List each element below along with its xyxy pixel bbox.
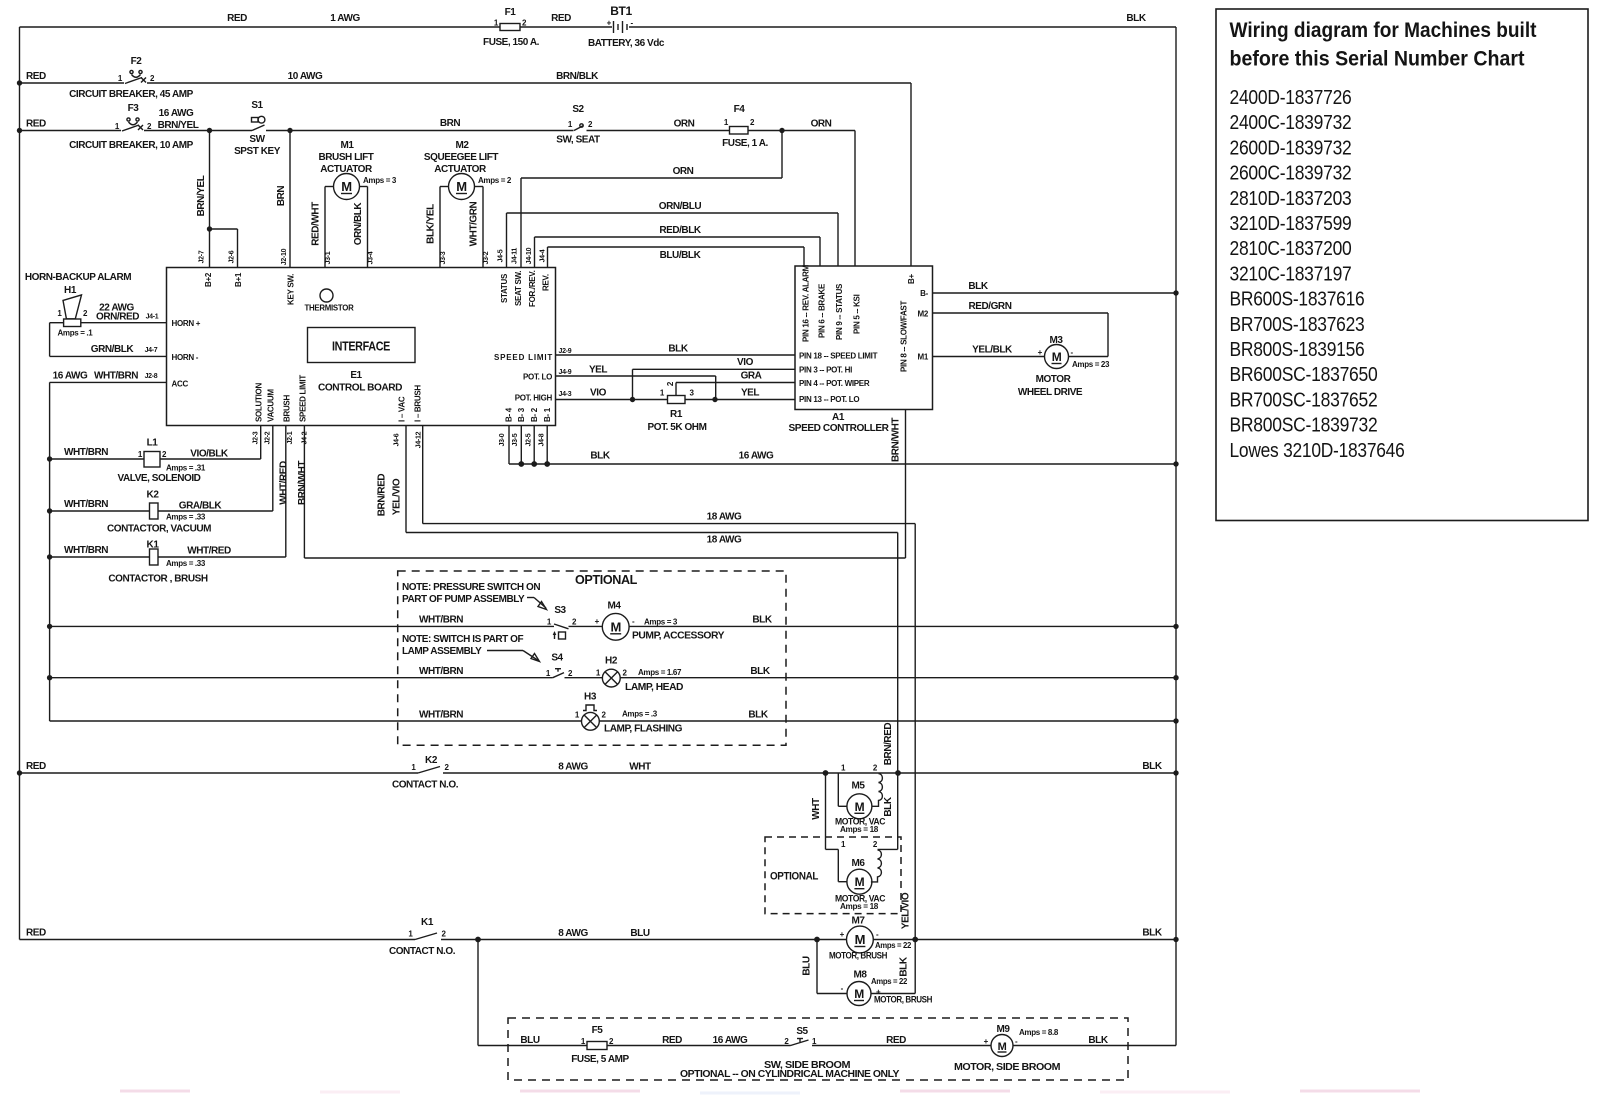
- wire: GRA wiper to PIN4: [675, 383, 677, 396]
- svg-text:Amps = 1.67: Amps = 1.67: [638, 668, 682, 677]
- svg-text:THERMISTOR: THERMISTOR: [305, 303, 354, 313]
- interface module: [308, 328, 416, 363]
- svg-text:F1: F1: [505, 7, 517, 18]
- svg-text:B+2: B+2: [204, 272, 213, 287]
- wire: WHT/BRN row to S4: [50, 677, 553, 679]
- wire: BRN/BLK drop to B+: [910, 83, 912, 266]
- svg-text:J4-3: J4-3: [559, 391, 572, 398]
- svg-text:+: +: [595, 617, 600, 626]
- node: junction left bus row2: [17, 80, 22, 85]
- svg-text:M2: M2: [917, 310, 928, 319]
- svg-text:WHEEL DRIVE: WHEEL DRIVE: [1018, 387, 1083, 398]
- svg-text:GRA: GRA: [741, 371, 762, 382]
- svg-text:PIN 16 -- REV. ALARM: PIN 16 -- REV. ALARM: [802, 264, 811, 342]
- svg-text:PIN 9 -- STATUS: PIN 9 -- STATUS: [835, 283, 844, 340]
- svg-text:BLU: BLU: [802, 956, 813, 975]
- svg-text:BR700SC-1837652: BR700SC-1837652: [1230, 388, 1378, 411]
- svg-text:WHT/RED: WHT/RED: [187, 546, 231, 557]
- svg-text:GRN/BLK: GRN/BLK: [91, 344, 135, 355]
- svg-text:J4-11: J4-11: [512, 248, 519, 264]
- svg-text:J4-1: J4-1: [146, 314, 159, 321]
- wire: M1 left leg RED/WHT to J3-1: [324, 187, 326, 268]
- svg-text:WHT/BRN: WHT/BRN: [64, 499, 108, 510]
- svg-text:RED: RED: [26, 119, 46, 130]
- svg-text:BT1: BT1: [610, 4, 632, 18]
- svg-text:L1: L1: [147, 438, 159, 449]
- svg-text:PIN 4 -- POT. WIPER: PIN 4 -- POT. WIPER: [799, 379, 870, 388]
- SECTION:BRUSH: [20, 916, 1179, 1006]
- node: junction after F4: [779, 128, 784, 133]
- svg-text:SPEED LIMIT: SPEED LIMIT: [299, 375, 308, 422]
- wire: K2 row RED / 8 AWG WHT / BLK: [20, 772, 419, 774]
- svg-text:S1: S1: [251, 100, 263, 111]
- svg-text:I – BRUSH: I – BRUSH: [414, 385, 423, 422]
- svg-text:YEL/VIO: YEL/VIO: [901, 892, 912, 929]
- svg-text:J2-10: J2-10: [281, 248, 288, 265]
- svg-text:B+1: B+1: [234, 272, 243, 287]
- svg-text:ORN/BLK: ORN/BLK: [353, 202, 364, 246]
- wire: B- BLK to right bus: [933, 292, 1177, 294]
- svg-text:Amps = .33: Amps = .33: [166, 559, 206, 568]
- svg-text:WHT: WHT: [811, 798, 822, 820]
- svg-text:2600C-1839732: 2600C-1839732: [1230, 162, 1352, 185]
- svg-text:RED/WHT: RED/WHT: [311, 202, 322, 246]
- svg-text:before this Serial Number Char: before this Serial Number Chart: [1230, 48, 1525, 71]
- control board E1: [167, 268, 556, 426]
- wire: K1 row RED / 8 AWG BLU / BLK: [20, 939, 416, 941]
- svg-text:Lowes 3210D-1837646: Lowes 3210D-1837646: [1230, 439, 1405, 462]
- svg-text:BATTERY, 36 Vdc: BATTERY, 36 Vdc: [588, 38, 665, 49]
- svg-text:PIN 13 -- POT. LO: PIN 13 -- POT. LO: [799, 395, 859, 404]
- wire: RED/BLK brake row: [535, 236, 821, 238]
- svg-text:ACC: ACC: [172, 380, 189, 389]
- svg-text:J4-9: J4-9: [559, 369, 572, 376]
- svg-text:LAMP, HEAD: LAMP, HEAD: [625, 682, 683, 693]
- svg-text:Amps = 18: Amps = 18: [840, 902, 879, 911]
- wire: GRA/BLK up to J2-2 VACUUM: [272, 426, 274, 511]
- svg-text:CONTACT N.O.: CONTACT N.O.: [389, 946, 456, 957]
- wire: YEL/VIO 18 AWG from J4-12: [422, 426, 424, 524]
- svg-text:S2: S2: [572, 104, 584, 115]
- svg-text:MOTOR: MOTOR: [1036, 374, 1072, 385]
- svg-text:M: M: [998, 1041, 1007, 1053]
- svg-text:H1: H1: [64, 285, 77, 296]
- svg-text:BLK: BLK: [1142, 761, 1162, 772]
- svg-text:S5: S5: [796, 1026, 808, 1037]
- svg-text:MOTOR, SIDE BROOM: MOTOR, SIDE BROOM: [954, 1062, 1060, 1073]
- svg-text:E1: E1: [350, 370, 362, 381]
- svg-text:WHT/BRN: WHT/BRN: [94, 371, 138, 382]
- wire: H1 pin1 down to GRN/BLK HORN- row: [50, 322, 64, 324]
- svg-text:BLK: BLK: [668, 344, 688, 355]
- node: F5 branch: [475, 937, 481, 943]
- SECTION:LEFT: [25, 272, 308, 721]
- svg-text:VIO/BLK: VIO/BLK: [190, 449, 229, 460]
- svg-text:PIN 5 -- KSI: PIN 5 -- KSI: [853, 294, 862, 334]
- svg-text:M: M: [341, 179, 351, 194]
- svg-text:WHT/BRN: WHT/BRN: [419, 615, 463, 626]
- svg-text:SW: SW: [249, 134, 265, 145]
- SECTION:TOP: [17, 4, 1176, 1046]
- svg-text:SPEED CONTROLLER: SPEED CONTROLLER: [789, 423, 890, 434]
- svg-text:BRUSH LIFT: BRUSH LIFT: [319, 152, 374, 163]
- svg-text:J4-2: J4-2: [302, 431, 309, 444]
- wire: VIO branch up to PIN3 POT HI: [632, 369, 634, 399]
- wire: VIO/BLK up to J2-3 SOLUTION: [260, 426, 262, 459]
- SECTION:CHART: [1216, 9, 1588, 521]
- serial number chart box: [1216, 9, 1588, 521]
- svg-text:2810D-1837203: 2810D-1837203: [1230, 187, 1352, 210]
- svg-text:J2-8: J2-8: [145, 373, 158, 380]
- svg-text:16 AWG: 16 AWG: [159, 108, 194, 119]
- svg-text:I – VAC: I – VAC: [398, 396, 407, 422]
- svg-text:2400C-1839732: 2400C-1839732: [1230, 111, 1352, 134]
- wire: drop from K1 row to F5: [477, 940, 479, 1046]
- svg-text:FUSE, 5 AMP: FUSE, 5 AMP: [571, 1054, 629, 1065]
- svg-text:BLK: BLK: [968, 281, 988, 292]
- svg-text:BRN/RED: BRN/RED: [883, 723, 894, 766]
- svg-text:+: +: [607, 19, 612, 28]
- svg-text:PART OF PUMP ASSEMBLY: PART OF PUMP ASSEMBLY: [402, 594, 525, 605]
- svg-text:CONTACT N.O.: CONTACT N.O.: [392, 780, 459, 791]
- svg-text:BRN/RED: BRN/RED: [377, 474, 388, 517]
- svg-text:J2-6: J2-6: [229, 250, 236, 263]
- svg-text:M: M: [1052, 350, 1062, 364]
- svg-text:Wiring diagram for Machines bu: Wiring diagram for Machines built: [1230, 19, 1537, 42]
- svg-text:BRN/WHT: BRN/WHT: [297, 461, 308, 505]
- svg-text:RED: RED: [26, 928, 46, 939]
- svg-text:Amps = 8.8: Amps = 8.8: [1019, 1028, 1059, 1037]
- svg-text:ORN: ORN: [674, 119, 695, 130]
- svg-text:NOTE: PRESSURE SWITCH ON: NOTE: PRESSURE SWITCH ON: [402, 582, 540, 593]
- svg-text:S3: S3: [554, 605, 566, 616]
- svg-text:BLK: BLK: [899, 956, 910, 976]
- node: M5 branch: [823, 770, 829, 776]
- svg-text:MOTOR, BRUSH: MOTOR, BRUSH: [874, 995, 932, 1005]
- svg-text:M8: M8: [854, 970, 868, 981]
- svg-text:J2-9: J2-9: [559, 348, 572, 355]
- svg-text:SPST KEY: SPST KEY: [234, 146, 281, 157]
- svg-text:Amps = 22: Amps = 22: [871, 977, 908, 986]
- svg-text:MOTOR, BRUSH: MOTOR, BRUSH: [829, 951, 887, 961]
- svg-text:2400D-1837726: 2400D-1837726: [1230, 86, 1352, 109]
- svg-text:+: +: [840, 930, 845, 939]
- svg-text:J4-4: J4-4: [540, 249, 547, 262]
- svg-text:M: M: [855, 800, 865, 814]
- svg-text:J2-2: J2-2: [265, 431, 272, 444]
- wire: BRN/RED 18 AWG from J4-6: [405, 426, 407, 533]
- svg-text:ORN/BLU: ORN/BLU: [659, 201, 702, 212]
- svg-text:VACUUM: VACUUM: [267, 389, 276, 422]
- optional side broom dashed box: [508, 1018, 1128, 1080]
- svg-text:RED: RED: [551, 13, 571, 24]
- svg-text:CIRCUIT BREAKER, 10 AMP: CIRCUIT BREAKER, 10 AMP: [69, 140, 194, 151]
- svg-text:J3-0: J3-0: [499, 433, 506, 446]
- svg-text:ORN: ORN: [673, 166, 694, 177]
- svg-text:J4-7: J4-7: [145, 347, 158, 354]
- svg-text:LAMP ASSEMBLY: LAMP ASSEMBLY: [402, 646, 482, 657]
- svg-text:10 AWG: 10 AWG: [288, 71, 323, 82]
- svg-text:J4-6: J4-6: [394, 433, 401, 446]
- svg-text:Amps = 18: Amps = 18: [840, 825, 879, 834]
- svg-text:BLK/YEL: BLK/YEL: [426, 204, 437, 244]
- svg-text:POT. LO: POT. LO: [523, 373, 552, 382]
- wire: BRN/YEL vertical to J2-7: [209, 131, 211, 268]
- svg-text:BRUSH: BRUSH: [283, 395, 292, 422]
- thermistor: [320, 289, 333, 302]
- svg-text:WHT/BRN: WHT/BRN: [419, 666, 463, 677]
- wire: M1 right leg ORN/BLK to J3-4: [367, 187, 369, 268]
- svg-text:J4-8: J4-8: [539, 433, 546, 446]
- svg-text:1 AWG: 1 AWG: [330, 13, 360, 24]
- svg-text:M: M: [854, 987, 864, 1001]
- svg-text:CONTACTOR , BRUSH: CONTACTOR , BRUSH: [108, 574, 207, 585]
- svg-text:PIN 18 -- SPEED LIMIT: PIN 18 -- SPEED LIMIT: [799, 352, 878, 361]
- wire: ORN drop to KSI column: [854, 131, 856, 267]
- svg-text:BR800SC-1839732: BR800SC-1839732: [1230, 414, 1378, 437]
- SECTION:MID: [304, 410, 1178, 940]
- node: M8 branch: [814, 937, 820, 943]
- svg-text:SQUEEGEE LIFT: SQUEEGEE LIFT: [424, 152, 499, 163]
- svg-text:J4-10: J4-10: [526, 247, 533, 264]
- svg-text:Amps = .33: Amps = .33: [166, 513, 206, 522]
- svg-text:J2-3: J2-3: [253, 431, 260, 444]
- svg-text:INTERFACE: INTERFACE: [332, 339, 391, 354]
- svg-text:M2: M2: [456, 140, 470, 151]
- svg-text:PIN 3 -- POT. HI: PIN 3 -- POT. HI: [799, 366, 852, 375]
- optional accessories dashed box: [398, 571, 786, 745]
- lamp H2 head: [565, 677, 603, 679]
- svg-text:M: M: [610, 619, 620, 634]
- wire: BLK speed limit J2-9 to PIN18: [556, 354, 796, 356]
- svg-text:BR600SC-1837650: BR600SC-1837650: [1230, 363, 1378, 386]
- wire: ACC row 16 AWG WHT/BRN: [50, 381, 167, 383]
- svg-text:RED: RED: [26, 71, 46, 82]
- svg-text:+: +: [984, 1037, 989, 1046]
- svg-text:BLK: BLK: [748, 710, 768, 721]
- wire: M2 RED/GRN loop to M3: [933, 312, 1109, 314]
- svg-text:CONTROL BOARD: CONTROL BOARD: [318, 383, 402, 394]
- svg-text:Amps = 3: Amps = 3: [363, 176, 397, 185]
- svg-text:PIN 6 -- BRAKE: PIN 6 -- BRAKE: [818, 283, 827, 338]
- svg-text:M: M: [456, 179, 466, 194]
- svg-text:YEL/BLK: YEL/BLK: [972, 345, 1013, 356]
- svg-text:H3: H3: [584, 692, 597, 703]
- svg-text:B- 3: B- 3: [517, 407, 526, 422]
- wire: M2 left leg BLK/YEL to J3-3: [439, 187, 441, 268]
- svg-text:VIO: VIO: [737, 357, 754, 368]
- svg-text:F2: F2: [131, 56, 143, 67]
- svg-text:8 AWG: 8 AWG: [558, 762, 588, 773]
- svg-text:J4-12: J4-12: [416, 431, 423, 448]
- svg-text:BRN: BRN: [440, 118, 461, 129]
- svg-text:WHT/RED: WHT/RED: [279, 461, 290, 505]
- svg-text:B-: B-: [920, 289, 928, 298]
- svg-text:HORN +: HORN +: [172, 319, 201, 328]
- svg-text:LAMP, FLASHING: LAMP, FLASHING: [604, 724, 683, 735]
- svg-text:M1: M1: [917, 353, 928, 362]
- node: BRN branch: [287, 128, 292, 133]
- svg-text:KEY SW.: KEY SW.: [287, 274, 296, 305]
- node: BRN/YEL branch: [207, 128, 212, 133]
- scan artifacts bottom edge: [120, 1091, 1420, 1093]
- svg-text:BRN/YEL: BRN/YEL: [196, 175, 207, 216]
- svg-text:BLK: BLK: [590, 451, 610, 462]
- svg-text:+: +: [1038, 348, 1043, 357]
- wire: ORN/BLU status row: [507, 212, 839, 214]
- svg-text:BR800S-1839156: BR800S-1839156: [1230, 338, 1365, 361]
- svg-text:M7: M7: [852, 916, 866, 927]
- svg-text:S4: S4: [551, 653, 563, 664]
- svg-text:HORN-BACKUP ALARM: HORN-BACKUP ALARM: [25, 272, 131, 283]
- svg-text:WHT/BRN: WHT/BRN: [64, 447, 108, 458]
- svg-text:Amps = .3: Amps = .3: [622, 710, 658, 719]
- svg-text:K2: K2: [147, 490, 160, 501]
- svg-text:RED: RED: [26, 761, 46, 772]
- svg-text:REV.: REV.: [542, 274, 551, 291]
- fuse F4: [730, 127, 749, 135]
- optional vac dashed box: [765, 837, 901, 914]
- SECTION:VAC: [17, 755, 1179, 914]
- wire: BRN vertical to KEY SW: [289, 131, 291, 268]
- svg-text:BLK: BLK: [1142, 928, 1162, 939]
- svg-text:BLK: BLK: [750, 666, 770, 677]
- svg-text:STATUS: STATUS: [500, 273, 509, 303]
- svg-text:M9: M9: [997, 1024, 1011, 1035]
- svg-text:2600D-1839732: 2600D-1839732: [1230, 136, 1352, 159]
- svg-text:OPTIONAL -- ON CYLINDRICAL MAC: OPTIONAL -- ON CYLINDRICAL MACHINE ONLY: [680, 1069, 900, 1080]
- svg-text:16 AWG: 16 AWG: [739, 451, 774, 462]
- wire: top row RED 1 AWG / BLK: [20, 26, 501, 28]
- svg-text:Amps = .31: Amps = .31: [166, 464, 206, 473]
- svg-text:VALVE, SOLENOID: VALVE, SOLENOID: [118, 473, 201, 484]
- svg-text:BRN/YEL: BRN/YEL: [158, 120, 199, 131]
- wire: WHT drop to M6: [825, 773, 827, 849]
- svg-text:J4-5: J4-5: [498, 249, 505, 262]
- svg-text:16 AWG: 16 AWG: [53, 371, 88, 382]
- wire: left main bus (RED): [19, 27, 21, 940]
- svg-text:J3-5: J3-5: [512, 433, 519, 446]
- svg-text:18 AWG: 18 AWG: [707, 512, 742, 523]
- svg-text:BLK: BLK: [883, 796, 894, 816]
- svg-text:M1: M1: [341, 140, 355, 151]
- svg-text:F3: F3: [128, 103, 140, 114]
- svg-text:BLU/BLK: BLU/BLK: [660, 250, 702, 261]
- svg-text:H2: H2: [605, 656, 618, 667]
- svg-text:RED: RED: [662, 1035, 682, 1046]
- wire: BLU drop to M8: [816, 940, 818, 994]
- svg-text:BLK: BLK: [752, 615, 772, 626]
- svg-text:RED: RED: [227, 13, 247, 24]
- svg-text:J2-7: J2-7: [199, 250, 206, 263]
- svg-text:8 AWG: 8 AWG: [558, 928, 588, 939]
- svg-text:B+: B+: [907, 274, 916, 284]
- svg-text:BRN: BRN: [276, 186, 287, 207]
- svg-text:J3-2: J3-2: [483, 251, 490, 264]
- svg-text:J2-1: J2-1: [287, 431, 294, 444]
- svg-text:J3-4: J3-4: [368, 251, 375, 264]
- svg-text:BLK: BLK: [1088, 1035, 1108, 1046]
- svg-text:M5: M5: [852, 781, 866, 792]
- svg-text:FUSE, 1 A.: FUSE, 1 A.: [722, 138, 768, 149]
- svg-text:M4: M4: [608, 601, 622, 612]
- svg-text:OPTIONAL: OPTIONAL: [575, 572, 637, 587]
- svg-text:HORN -: HORN -: [172, 353, 199, 362]
- wire: WHT/BRN row to H3: [50, 720, 582, 722]
- wire: M1 YEL/BLK to M3: [933, 356, 1045, 358]
- svg-text:R1: R1: [670, 409, 683, 420]
- svg-text:B- 1: B- 1: [543, 407, 552, 422]
- wire: BLK 16 AWG battery negative row: [508, 426, 510, 464]
- potentiometer R1 5K: [668, 396, 686, 404]
- svg-text:SPEED LIMIT: SPEED LIMIT: [494, 353, 552, 362]
- svg-text:BR700S-1837623: BR700S-1837623: [1230, 313, 1365, 336]
- wire: VIO pot high J4-3 row: [556, 399, 668, 401]
- SECTION:ACT: [311, 131, 839, 268]
- svg-text:18 AWG: 18 AWG: [707, 535, 742, 546]
- svg-text:B- 4: B- 4: [505, 407, 514, 422]
- fuse F1: [500, 24, 520, 31]
- svg-text:POT. 5K OHM: POT. 5K OHM: [648, 422, 707, 433]
- wire: right main bus (BLK): [1175, 27, 1177, 1046]
- svg-text:VIO: VIO: [590, 388, 607, 399]
- svg-text:K2: K2: [425, 755, 438, 766]
- svg-text:CIRCUIT BREAKER, 45 AMP: CIRCUIT BREAKER, 45 AMP: [69, 89, 194, 100]
- wire: BRN/RED vertical to M5/M6: [897, 533, 899, 850]
- svg-text:OPTIONAL: OPTIONAL: [770, 871, 819, 883]
- svg-text:BLU: BLU: [630, 928, 649, 939]
- svg-text:FUSE, 150 A.: FUSE, 150 A.: [483, 37, 540, 48]
- svg-text:Amps = 23: Amps = 23: [1072, 360, 1110, 369]
- wire: WHT/RED up to J2-1 BRUSH: [285, 426, 287, 557]
- wire: BRN/WHT from J4-2 SPEED LIMIT down: [303, 426, 305, 558]
- svg-text:BRN/WHT: BRN/WHT: [891, 418, 902, 462]
- wire: YEL pot lo J4-9: [556, 375, 716, 377]
- svg-text:K1: K1: [421, 917, 434, 928]
- wire: WHT/BRN bus: [49, 382, 51, 721]
- svg-text:F5: F5: [592, 1025, 604, 1036]
- svg-text:WHT/BRN: WHT/BRN: [419, 710, 463, 721]
- svg-text:SEAT SW.: SEAT SW.: [514, 271, 523, 306]
- svg-text:YEL: YEL: [741, 388, 759, 399]
- svg-text:A1: A1: [832, 412, 845, 423]
- svg-text:BLK: BLK: [1126, 13, 1146, 24]
- svg-text:Amps = 22: Amps = 22: [875, 941, 912, 950]
- wire: YEL/VIO vertical to M7: [914, 524, 916, 940]
- svg-text:Amps = .1: Amps = .1: [58, 329, 94, 338]
- motor M4 pump: [569, 625, 603, 627]
- svg-text:WHT/GRN: WHT/GRN: [469, 201, 480, 246]
- svg-text:3210D-1837599: 3210D-1837599: [1230, 212, 1352, 235]
- svg-text:NOTE: SWITCH IS PART OF: NOTE: SWITCH IS PART OF: [402, 634, 523, 645]
- svg-text:RED/GRN: RED/GRN: [969, 301, 1012, 312]
- wire: H1 pin2 ORN/RED to J4-1 HORN+: [81, 322, 167, 324]
- SECTION:BOARD: [167, 247, 572, 448]
- node: B+1 branch: [207, 226, 212, 231]
- svg-text:M: M: [855, 932, 865, 947]
- svg-text:WHT/BRN: WHT/BRN: [64, 545, 108, 556]
- wire: row 2 RED / 10 AWG / BRN-BLK: [20, 82, 125, 84]
- svg-text:M: M: [855, 875, 865, 889]
- svg-text:CONTACTOR, VACUUM: CONTACTOR, VACUUM: [107, 524, 211, 535]
- svg-text:PUMP, ACCESSORY: PUMP, ACCESSORY: [632, 631, 725, 642]
- svg-text:YEL/VIO: YEL/VIO: [392, 478, 403, 515]
- svg-text:2810C-1837200: 2810C-1837200: [1230, 237, 1352, 260]
- svg-text:16 AWG: 16 AWG: [713, 1035, 748, 1046]
- SECTION:BOTTOM: [120, 940, 1420, 1094]
- wire: M2 right leg WHT/GRN to J3-2: [482, 187, 484, 268]
- svg-text:FOR./REV.: FOR./REV.: [528, 270, 537, 307]
